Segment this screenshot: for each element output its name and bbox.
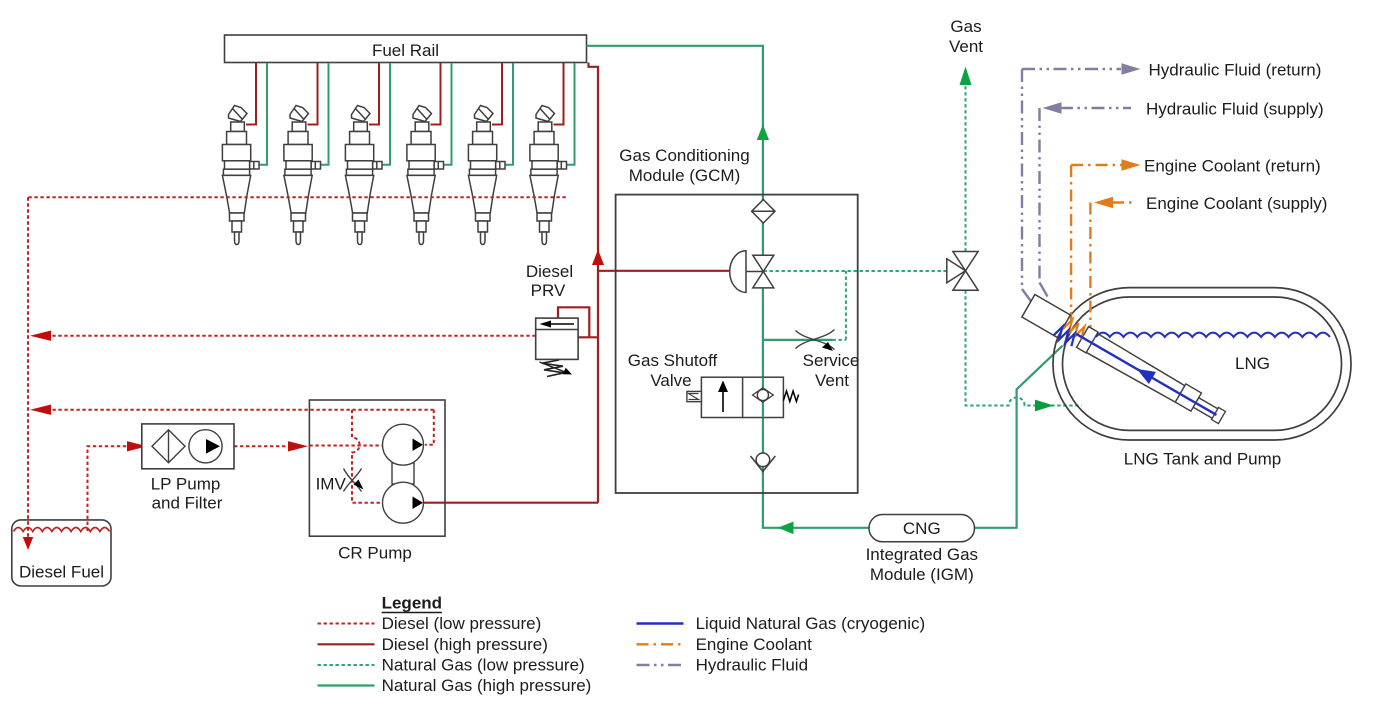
wire: injector 2 diesel feed: [308, 63, 318, 125]
svg-text:Service: Service: [803, 351, 860, 370]
pump outer sleeve: [1022, 294, 1071, 337]
wire: injector 1 gas feed: [259, 63, 268, 165]
wire: natural gas low pressure GCM to vent valve: [764, 270, 947, 272]
hydraulic fluid return line: [1022, 68, 1121, 70]
legend sample engine coolant: [637, 643, 684, 645]
wire: injector 5 diesel feed: [492, 63, 502, 125]
flow arrow left into GCM riser: [778, 522, 794, 535]
wire: diesel high pressure from CR pump up to fuel rail: [423, 63, 598, 503]
injector 5: [468, 106, 505, 245]
legend: [318, 594, 926, 696]
svg-text:Natural Gas (low pressure): Natural Gas (low pressure): [382, 656, 585, 675]
svg-text:Legend: Legend: [382, 594, 442, 613]
gas shutoff solenoid valve: [628, 351, 799, 418]
injector 1: [222, 106, 259, 245]
svg-text:Diesel Fuel: Diesel Fuel: [19, 563, 104, 582]
svg-text:Hydraulic Fluid (return): Hydraulic Fluid (return): [1149, 61, 1322, 80]
gas conditioning module box: [616, 195, 858, 493]
flow arrow left on CR return: [30, 405, 51, 415]
svg-text:Module (IGM): Module (IGM): [870, 565, 974, 584]
connecting shaft between pumps: [392, 463, 414, 484]
engine coolant supply line: [1112, 201, 1135, 203]
LNG coil (blue): [1053, 325, 1078, 347]
transfer pump circle: [383, 424, 424, 465]
check valve (ball) below solenoid: [751, 453, 776, 472]
svg-text:LNG: LNG: [1235, 354, 1270, 373]
svg-text:Liquid Natural Gas (cryogenic): Liquid Natural Gas (cryogenic): [696, 614, 926, 633]
pump P1: [189, 430, 222, 463]
flow arrow down into diesel tank: [23, 537, 33, 550]
IMV valve symbol: [344, 469, 362, 492]
svg-text:PRV: PRV: [531, 281, 566, 300]
wire: injector 5 gas feed: [505, 63, 514, 165]
injector 2: [284, 106, 321, 245]
engine coolant return line: [1071, 164, 1122, 166]
svg-text:Fuel Rail: Fuel Rail: [372, 41, 439, 60]
svg-text:CNG: CNG: [903, 519, 941, 538]
flow arrow right into LP pump: [127, 441, 147, 451]
flow arrow up to rail: [757, 125, 769, 141]
svg-text:Hydraulic Fluid: Hydraulic Fluid: [696, 656, 808, 675]
injector 6: [530, 106, 567, 245]
wire: diesel high pressure branch to GCM valve: [598, 270, 730, 272]
flow arrow up gas vent: [960, 67, 972, 86]
service vent restrictor: [796, 330, 835, 350]
legend sample diesel high pressure: [318, 643, 375, 645]
svg-text:Diesel (high pressure): Diesel (high pressure): [382, 635, 548, 654]
return spring: [783, 391, 798, 402]
LNG tank inner shell: [1063, 297, 1342, 430]
svg-text:Engine Coolant: Engine Coolant: [696, 635, 813, 654]
pump collar: [1077, 327, 1099, 353]
legend sample natural gas high pressure: [318, 684, 375, 686]
injector 4: [407, 106, 444, 245]
wire: natural gas main line through GCM: [763, 195, 869, 528]
svg-text:Vent: Vent: [949, 37, 983, 56]
svg-text:Diesel (low pressure): Diesel (low pressure): [382, 614, 542, 633]
svg-text:Integrated Gas: Integrated Gas: [866, 545, 978, 564]
wire: injector 1 diesel feed: [246, 63, 256, 125]
svg-text:LP Pump: LP Pump: [151, 475, 221, 494]
legend sample natural gas low pressure: [318, 664, 375, 666]
injector 3: [345, 106, 382, 245]
wire: diesel low pressure PRV return line: [50, 335, 536, 337]
svg-text:LNG Tank and Pump: LNG Tank and Pump: [1124, 450, 1282, 469]
HP pump circle: [383, 482, 424, 523]
LNG tank outer shell: [1053, 288, 1351, 440]
svg-text:CR Pump: CR Pump: [338, 544, 412, 563]
pump tube body: [1085, 333, 1185, 404]
wire: injector 4 gas feed: [443, 63, 452, 165]
svg-text:Natural Gas (high pressure): Natural Gas (high pressure): [382, 676, 592, 695]
wire: diesel low pressure injector return line (vertical part): [27, 197, 29, 541]
wire: injector 6 diesel feed: [554, 63, 564, 125]
CNG integrated gas module: [866, 515, 978, 585]
svg-text:IMV: IMV: [316, 475, 347, 494]
svg-text:and Filter: and Filter: [152, 494, 223, 513]
LNG liquid surface wave: [1096, 333, 1330, 337]
coolant heat exchange coil (orange): [1062, 318, 1087, 341]
svg-text:Engine Coolant (supply): Engine Coolant (supply): [1146, 194, 1327, 213]
hydraulic fluid supply line: [1060, 107, 1131, 109]
wire: gas vent riser: [965, 86, 967, 252]
svg-text:Diesel: Diesel: [526, 262, 573, 281]
LNG pump assembly: [1021, 294, 1228, 429]
wire: diesel feed tank to LP pump: [88, 446, 129, 531]
legend sample diesel low pressure: [318, 623, 375, 625]
svg-text:Vent: Vent: [815, 371, 849, 390]
check valve (diamond) in GCM: [752, 200, 775, 224]
svg-text:Gas: Gas: [950, 17, 981, 36]
LP pump and filter: [142, 424, 234, 513]
three-way vent valve: [947, 252, 978, 291]
filter F1: [152, 430, 185, 463]
wire: diesel low pressure injector return line (horizontal over injectors): [28, 196, 566, 198]
wire: diesel low pressure CR pump return line: [50, 410, 434, 445]
svg-text:Module (GCM): Module (GCM): [629, 166, 740, 185]
svg-text:Engine Coolant (return): Engine Coolant (return): [1144, 157, 1321, 176]
flow arrow right into CR pump: [288, 441, 308, 451]
legend sample hydraulic fluid: [637, 664, 684, 666]
wire: service vent line: [763, 339, 833, 341]
legend sample LNG: [637, 622, 684, 624]
wire: natural gas high pressure rail to GCM: [587, 46, 763, 195]
wire: IMV branch line with crossover hop: [352, 410, 382, 503]
LNG suction line with arrow: [1076, 334, 1216, 415]
diesel fuel tank: [12, 520, 111, 586]
svg-text:Hydraulic Fluid (supply): Hydraulic Fluid (supply): [1146, 100, 1324, 119]
wire: injector 2 gas feed: [320, 63, 329, 165]
wire: diesel feed LP pump to CR pump: [234, 445, 288, 447]
PRV spring: [542, 360, 564, 377]
wire: natural gas CNG to LNG tank pump: [975, 346, 1063, 528]
gas admission valve with actuator: [730, 251, 774, 293]
engine coolant down pipes: [1070, 165, 1072, 321]
wire: vent valve down and to tank with crossover hop: [966, 290, 1082, 405]
wire: PRV pilot loop: [558, 307, 598, 337]
diesel PRV: [526, 262, 598, 377]
flow arrow up on diesel HP line: [592, 250, 604, 266]
injector feed wires (red diesel, green gas) x6: [246, 63, 575, 165]
svg-text:Gas Conditioning: Gas Conditioning: [619, 146, 749, 165]
wire: injector 3 gas feed: [382, 63, 391, 165]
wire: injector 6 gas feed: [566, 63, 575, 165]
svg-text:Gas Shutoff: Gas Shutoff: [628, 351, 718, 370]
CR pump box: [309, 400, 445, 563]
wire: injector 4 diesel feed: [431, 63, 441, 125]
wire: injector 3 diesel feed: [369, 63, 379, 125]
hydraulic fluid down pipes: [1021, 69, 1023, 289]
wire: feed line inside CR pump to transfer pump: [309, 445, 382, 447]
solenoid tab: [687, 391, 702, 401]
flow arrow left on PRV return: [30, 331, 51, 341]
fuel rail: [225, 35, 587, 63]
flow arrow right toward tank: [1035, 400, 1054, 412]
svg-text:Valve: Valve: [650, 371, 691, 390]
